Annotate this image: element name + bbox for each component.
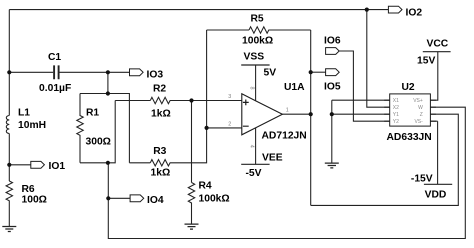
- svg-text:W: W: [418, 105, 423, 111]
- svg-text:2: 2: [228, 122, 231, 128]
- svg-text:Y1: Y1: [393, 112, 399, 118]
- svg-text:U1A: U1A: [284, 82, 305, 93]
- svg-text:-5V: -5V: [246, 168, 262, 179]
- svg-text:VCC: VCC: [427, 39, 449, 50]
- svg-text:-15V: -15V: [411, 173, 433, 184]
- svg-text:15V: 15V: [417, 56, 435, 67]
- svg-text:300Ω: 300Ω: [86, 137, 111, 148]
- svg-text:R5: R5: [251, 14, 264, 25]
- svg-text:8: 8: [249, 87, 255, 90]
- svg-text:Y2: Y2: [393, 119, 399, 125]
- svg-text:Z: Z: [420, 112, 423, 118]
- svg-text:R3: R3: [153, 146, 166, 157]
- svg-text:VS-: VS-: [414, 119, 423, 125]
- svg-text:R1: R1: [86, 108, 99, 119]
- svg-text:4: 4: [248, 145, 254, 148]
- svg-text:VSS: VSS: [244, 52, 265, 63]
- svg-text:10mH: 10mH: [18, 120, 46, 131]
- svg-text:IO3: IO3: [147, 70, 164, 81]
- svg-text:3: 3: [228, 94, 231, 100]
- svg-text:5V: 5V: [264, 68, 277, 79]
- svg-text:100kΩ: 100kΩ: [242, 36, 273, 47]
- svg-text:IO4: IO4: [147, 195, 164, 206]
- svg-text:X1: X1: [393, 98, 399, 104]
- svg-text:VS+: VS+: [413, 98, 423, 104]
- svg-text:1: 1: [286, 108, 289, 114]
- svg-text:R6: R6: [22, 184, 35, 195]
- svg-text:VDD: VDD: [425, 189, 447, 200]
- svg-text:VEE: VEE: [262, 153, 283, 164]
- svg-text:100Ω: 100Ω: [22, 195, 47, 206]
- svg-text:IO1: IO1: [49, 161, 66, 172]
- svg-text:IO5: IO5: [324, 82, 341, 93]
- svg-text:1kΩ: 1kΩ: [151, 168, 171, 179]
- svg-text:1kΩ: 1kΩ: [151, 109, 171, 120]
- svg-text:IO6: IO6: [324, 36, 341, 47]
- svg-text:X2: X2: [393, 105, 399, 111]
- svg-text:AD633JN: AD633JN: [387, 132, 432, 143]
- svg-text:0.01µF: 0.01µF: [39, 83, 71, 94]
- svg-text:R2: R2: [153, 84, 166, 95]
- svg-text:L1: L1: [18, 108, 30, 119]
- svg-text:U2: U2: [402, 82, 415, 93]
- svg-text:C1: C1: [48, 52, 61, 63]
- svg-text:100kΩ: 100kΩ: [199, 194, 230, 205]
- svg-text:AD712JN: AD712JN: [262, 131, 307, 142]
- svg-text:IO2: IO2: [406, 8, 423, 19]
- svg-text:R4: R4: [199, 181, 212, 192]
